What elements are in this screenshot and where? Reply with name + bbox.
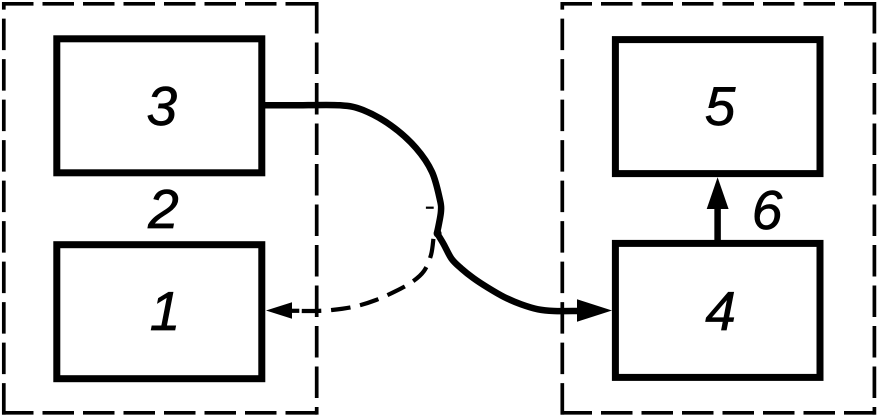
dashed enclosure left, left edge <box>2 2 6 415</box>
arrowhead into block 5 <box>707 177 729 209</box>
svg-text:1: 1 <box>150 280 181 342</box>
dashed enclosure right, right edge <box>873 2 877 415</box>
svg-text:2: 2 <box>147 178 179 240</box>
arrowhead into block 1 <box>266 302 292 318</box>
svg-text:5: 5 <box>705 75 736 137</box>
wire: solid curve from block 3 to block 4, upper bend <box>262 105 441 233</box>
wire: solid curve lower sweep to block 4 <box>437 233 577 311</box>
dashed enclosure left, right edge <box>315 2 319 415</box>
block 3 <box>57 39 262 173</box>
svg-text:3: 3 <box>147 75 178 137</box>
block 5 <box>615 40 820 174</box>
dashed enclosure left, bottom edge <box>2 411 319 415</box>
tick mark near curve junction <box>426 207 434 209</box>
dashed enclosure right, bottom edge <box>561 411 877 415</box>
arrowhead into block 4 <box>577 299 612 321</box>
dashed enclosure left (group 2) top edge <box>2 2 319 6</box>
svg-text:4: 4 <box>705 280 736 342</box>
wire: dashed curve to block 1 <box>292 238 434 311</box>
svg-text:6: 6 <box>752 179 783 241</box>
wire: vertical arrow from block 4 to block 5 <box>714 206 721 240</box>
dashed enclosure right, top edge <box>561 2 877 6</box>
block 4 <box>615 243 820 377</box>
block 1 <box>57 245 262 379</box>
dashed enclosure right, left edge <box>560 2 564 415</box>
junction blob at curve cusp <box>434 230 442 238</box>
dash stub behind arrowhead <box>291 309 299 313</box>
